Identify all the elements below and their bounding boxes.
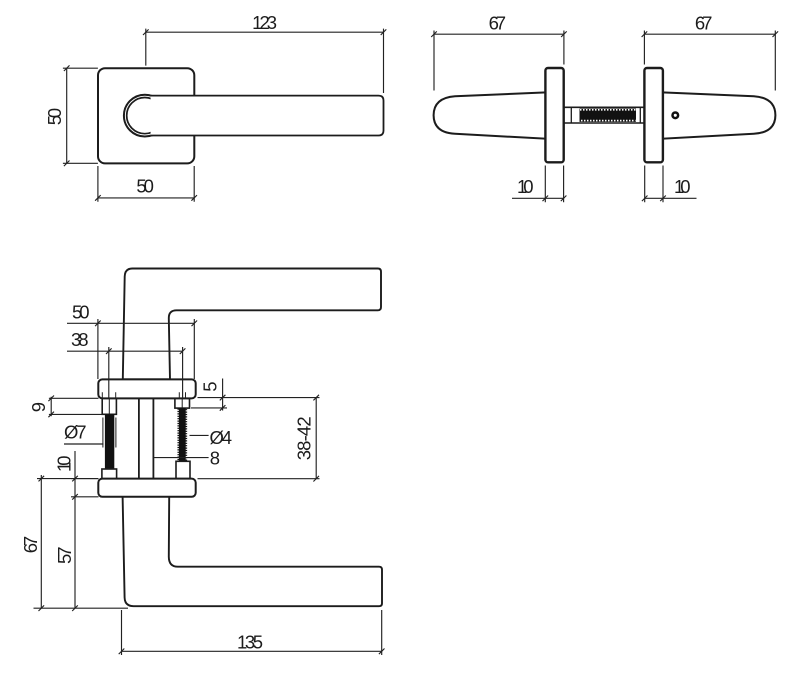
svg-text:Ø4: Ø4 — [210, 427, 233, 448]
grip screw dot — [673, 113, 679, 119]
dimension 10 right extension lines — [645, 166, 663, 203]
spindle thread serration bottom — [581, 120, 636, 122]
right screw thread serration right — [185, 409, 187, 461]
svg-text:123: 123 — [252, 12, 277, 33]
left screw threaded rod — [105, 414, 114, 469]
svg-text:10: 10 — [674, 176, 691, 197]
dimension 57 ticks — [72, 605, 78, 611]
lever bar front outline — [151, 96, 384, 136]
dimension 135 line — [122, 650, 382, 652]
neck inner circle — [127, 98, 163, 134]
dimension 50 bottom ticks — [95, 195, 197, 201]
dimension 10 v3 extension lines — [71, 479, 99, 497]
dimension 135 ticks — [119, 649, 385, 655]
dimension 50 v3 ticks — [95, 321, 197, 327]
dimension 67 v3 extension top — [37, 478, 99, 480]
svg-text:67: 67 — [695, 13, 713, 34]
svg-text:9: 9 — [28, 402, 49, 412]
svg-text:67: 67 — [489, 13, 507, 34]
svg-text:10: 10 — [517, 176, 534, 197]
dimension 10 right line — [645, 197, 697, 199]
square rosette front — [98, 68, 194, 163]
right screw threaded rod — [179, 408, 186, 461]
dimension 5 extension line low — [191, 407, 227, 409]
right rosette side — [644, 68, 663, 162]
right screw thread serration left — [177, 409, 179, 462]
dimension 67 v3 ticks — [39, 476, 45, 611]
dimension 9 ticks — [48, 396, 54, 418]
dimension 50 left ticks — [64, 65, 70, 166]
svg-text:67: 67 — [20, 536, 41, 554]
svg-text:50: 50 — [72, 302, 90, 323]
dimension 67/57 bottom extension — [34, 607, 129, 609]
right grip — [662, 92, 775, 138]
spindle thread band — [580, 109, 637, 122]
dimension 50 bottom extension lines — [98, 166, 194, 202]
label leader 8 — [154, 457, 209, 459]
dimension 5 ticks — [220, 395, 226, 411]
dimension 67 right ticks — [642, 31, 779, 37]
dimension 10 right ticks — [642, 196, 666, 202]
dimension 50 bottom line — [98, 197, 194, 199]
right screw nut — [176, 461, 190, 478]
dimension 10 v3 ticks — [72, 476, 78, 500]
dimension 123 ticks — [143, 29, 386, 35]
dimension 5 line — [222, 379, 224, 411]
dimension 50 left line — [66, 68, 68, 163]
svg-text:38-42: 38-42 — [294, 416, 315, 460]
dimension 50 v3 line — [67, 322, 194, 324]
label leader Ø7 — [64, 443, 104, 445]
neck outer circle — [124, 95, 166, 137]
top rosette plate — [98, 379, 195, 398]
dimension 67 right extension lines — [644, 31, 775, 91]
dimension 123 extension lines — [146, 29, 384, 93]
dimension 10 left ticks — [543, 196, 567, 202]
spindle thread serration top — [580, 109, 636, 111]
left screw head slot — [108, 398, 110, 414]
dimension 123 line — [146, 31, 384, 33]
left grip — [434, 92, 547, 138]
dimension 38 ticks — [106, 348, 185, 354]
dimension 9 line — [50, 397, 52, 416]
dimension 38-42 bottom extension line — [198, 478, 320, 480]
dimension 67 right line — [644, 33, 775, 35]
rosette screw hole edges top plate — [102, 392, 185, 398]
right screw head — [175, 398, 190, 408]
svg-text:8: 8 — [210, 447, 220, 468]
svg-text:Ø7: Ø7 — [64, 422, 87, 443]
spindle collar lines — [571, 107, 640, 123]
dimension 38 line — [67, 350, 183, 352]
dimension 50 v3 extension lines — [98, 319, 194, 379]
dimension 67 v3 line — [40, 475, 42, 608]
svg-text:5: 5 — [200, 382, 221, 392]
svg-text:135: 135 — [237, 632, 263, 653]
dimension 9 extension lines — [49, 398, 103, 414]
svg-text:50: 50 — [136, 175, 154, 196]
dimension 10/57 shared line — [74, 451, 76, 608]
dimension 135 extension lines — [122, 610, 382, 655]
dimension 67 left extension lines — [434, 31, 564, 91]
left screw nut — [102, 469, 117, 479]
dimension 67 left line — [434, 33, 564, 35]
left screw head — [102, 398, 116, 414]
dimension 38-42 ticks — [313, 395, 319, 482]
svg-text:10: 10 — [54, 456, 75, 473]
label leader Ø4 — [190, 434, 209, 436]
svg-text:38: 38 — [71, 329, 89, 350]
dimension 10 left line — [512, 197, 564, 199]
square spindle section — [139, 398, 154, 478]
left screw crest lines — [103, 418, 116, 448]
left rosette side — [545, 68, 563, 162]
bottom handle section — [123, 496, 382, 606]
lever bar front (fill masks circle right side) — [151, 96, 384, 136]
dimension 38-42 top extension line — [198, 397, 320, 399]
dimension 38 extension lines — [109, 347, 183, 398]
right screw head slot — [181, 398, 183, 408]
svg-text:57: 57 — [54, 547, 75, 565]
spindle outer lines — [564, 107, 645, 123]
dimension 10 left extension lines — [545, 166, 563, 203]
bottom rosette plate — [98, 479, 195, 497]
dimension 38-42 line — [315, 398, 317, 479]
dimension 67 left ticks — [431, 31, 567, 37]
dimension 50 left extension lines — [63, 68, 98, 163]
top handle section — [123, 269, 381, 380]
svg-text:50: 50 — [44, 108, 65, 126]
